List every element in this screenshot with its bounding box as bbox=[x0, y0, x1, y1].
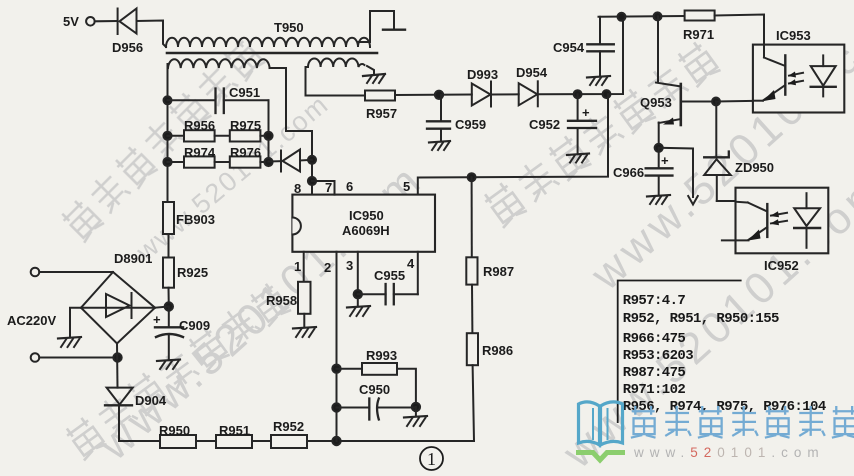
bridge rectifier D8901 bbox=[81, 272, 155, 344]
wire pin2 to R993 bbox=[337, 368, 363, 370]
parts list border bbox=[618, 281, 742, 424]
junction C954 top bbox=[618, 13, 626, 21]
junction pin3/C955 bbox=[354, 290, 362, 298]
junction R987 top bbox=[468, 173, 476, 181]
wire secondary1 right end down to rectifier diode bbox=[270, 68, 312, 195]
ground (R958) bbox=[293, 327, 316, 337]
junction R993/C950 right bbox=[412, 403, 420, 411]
junction pin2/R993 bbox=[332, 365, 340, 373]
ground (secondary2) bbox=[363, 74, 385, 83]
capacitor C959 bbox=[427, 95, 450, 142]
wire D993 to D954 bbox=[491, 93, 519, 95]
svg-text:R974: R974 bbox=[184, 145, 216, 160]
svg-text:R956, R974, R975, R976:104: R956, R974, R975, R976:104 bbox=[623, 399, 826, 415]
capacitor C951 bbox=[168, 89, 269, 114]
node AC bottom terminal bbox=[31, 353, 40, 362]
resistor R958 bbox=[298, 282, 311, 314]
svg-text:C952: C952 bbox=[529, 117, 560, 132]
capacitor C909 (electrolytic) bbox=[155, 307, 183, 360]
svg-text:R975: R975 bbox=[230, 118, 261, 133]
ground (C959) bbox=[429, 141, 450, 150]
svg-text:C955: C955 bbox=[374, 268, 405, 283]
svg-text:7: 7 bbox=[325, 180, 332, 195]
wire pin 3 bbox=[357, 252, 359, 306]
resistor R957 bbox=[365, 91, 395, 101]
wire bottom rail right bbox=[307, 440, 474, 442]
ground (C954) bbox=[587, 76, 610, 85]
wire D956 to T950 primary bbox=[137, 21, 167, 48]
wire Q953 base to IC953 emitter bbox=[682, 101, 716, 103]
capacitor C952 (electrolytic) bbox=[568, 94, 596, 154]
svg-text:5V: 5V bbox=[63, 14, 79, 29]
junction R974 left bbox=[163, 158, 171, 166]
svg-text:R952: R952 bbox=[273, 419, 304, 434]
diode D956 bbox=[118, 9, 137, 35]
junction R975 right bbox=[264, 132, 272, 140]
wire pin 2 long bbox=[336, 252, 338, 441]
junction diode anode node bbox=[308, 156, 316, 164]
wire pin5 feedback net bbox=[418, 94, 608, 195]
wire C951 right down bbox=[268, 100, 270, 162]
svg-text:R976: R976 bbox=[230, 145, 261, 160]
logo green underline bbox=[576, 453, 625, 461]
svg-text:R956: R956 bbox=[184, 118, 215, 133]
svg-text:D993: D993 bbox=[467, 67, 498, 82]
resistor R951 bbox=[216, 435, 252, 448]
svg-text:8: 8 bbox=[294, 181, 301, 196]
svg-text:A6069H: A6069H bbox=[342, 223, 390, 238]
wire bridge left to ground bbox=[70, 308, 81, 337]
svg-text:R966:475: R966:475 bbox=[623, 331, 686, 347]
svg-text:FB903: FB903 bbox=[176, 212, 215, 227]
logo text jiadian weixiu ziliao wang (blue script) bbox=[631, 406, 854, 438]
svg-text:R971:102: R971:102 bbox=[623, 382, 686, 398]
wire bottom rail left bbox=[119, 440, 160, 442]
wire R925 to C909 node bbox=[168, 288, 170, 307]
junction pin5 feedback node bbox=[603, 90, 611, 98]
arrow off-page down bbox=[688, 196, 698, 205]
node AC top terminal bbox=[31, 268, 40, 277]
ground (C952) bbox=[567, 154, 589, 163]
capacitor C966 (electrolytic) bbox=[646, 148, 673, 196]
op-amp IC950 body bbox=[292, 195, 435, 252]
ground (C950 right) bbox=[404, 407, 427, 426]
logo book icon bbox=[579, 402, 623, 445]
wire top bus bbox=[599, 15, 685, 18]
svg-text:R950: R950 bbox=[159, 423, 190, 438]
svg-text:R987: R987 bbox=[483, 264, 514, 279]
ground (AC input) bbox=[58, 337, 81, 347]
wire D954 to riser bbox=[538, 17, 623, 94]
transformer T950 secondary winding 2 bbox=[308, 59, 364, 68]
svg-text:AC220V: AC220V bbox=[7, 313, 56, 328]
svg-text:R971: R971 bbox=[683, 27, 714, 42]
ground (C966) bbox=[647, 195, 670, 204]
svg-text:2: 2 bbox=[324, 260, 331, 275]
junction Q953 base / ZD950 bbox=[712, 98, 720, 106]
svg-text:IC950: IC950 bbox=[349, 208, 384, 223]
svg-text:C951: C951 bbox=[229, 85, 260, 100]
wire R951-R952 bbox=[252, 440, 271, 442]
svg-text:3: 3 bbox=[346, 258, 353, 273]
junction R956 left bbox=[163, 132, 171, 140]
junction C952 node bbox=[574, 90, 582, 98]
wire pin 7 link bbox=[312, 181, 335, 195]
diode D993 bbox=[472, 82, 491, 107]
svg-text:5: 5 bbox=[403, 179, 410, 194]
resistor R993 bbox=[362, 363, 397, 375]
junction pin2/C950 bbox=[332, 403, 340, 411]
transformer T950 core bbox=[167, 52, 377, 55]
svg-text:R925: R925 bbox=[177, 265, 208, 280]
resistor R974 bbox=[168, 156, 215, 167]
wire ZD950 to IC952 bbox=[717, 200, 736, 202]
svg-text:+: + bbox=[582, 105, 590, 120]
resistor R956 bbox=[168, 130, 215, 141]
wire bridge right to C909 node bbox=[155, 307, 169, 308]
svg-text:IC952: IC952 bbox=[764, 258, 799, 273]
resistor R925 bbox=[163, 258, 174, 288]
transistor Q953 bbox=[656, 16, 681, 147]
wire R987 to R986 bbox=[471, 285, 473, 334]
svg-text:R957:4.7: R957:4.7 bbox=[623, 293, 686, 309]
junction Q953 emitter / C966 bbox=[655, 144, 663, 152]
junction C959 node bbox=[435, 91, 443, 99]
svg-text:R952, R951, R950:155: R952, R951, R950:155 bbox=[623, 311, 779, 327]
wire R987 chain top bbox=[471, 177, 473, 257]
capacitor C955 bbox=[358, 284, 418, 304]
svg-text:C966: C966 bbox=[613, 165, 644, 180]
wire 5V to D956 bbox=[95, 20, 117, 22]
optocoupler IC952 bbox=[722, 188, 828, 254]
svg-text:D904: D904 bbox=[135, 393, 167, 408]
wire AC bottom to bridge bottom bbox=[39, 357, 117, 359]
svg-text:R958: R958 bbox=[266, 293, 297, 308]
svg-text:IC953: IC953 bbox=[776, 28, 811, 43]
svg-text:R951: R951 bbox=[219, 423, 250, 438]
svg-text:C909: C909 bbox=[179, 318, 210, 333]
wire bridge bottom down to D904 bbox=[116, 344, 119, 388]
node circled 1 bbox=[420, 447, 443, 470]
transformer T950 secondary winding 1 bbox=[168, 59, 270, 68]
svg-text:+: + bbox=[661, 153, 669, 168]
resistor R986 bbox=[467, 333, 478, 365]
node 5V terminal bbox=[86, 17, 95, 26]
junction C909 node bbox=[165, 302, 173, 310]
resistor R950 bbox=[160, 435, 196, 448]
capacitor C954 bbox=[587, 17, 614, 76]
junction Q953 collector top bbox=[654, 12, 662, 20]
svg-text:www.520101.com: www.520101.com bbox=[633, 445, 825, 460]
transformer T950 primary winding bbox=[166, 38, 370, 47]
svg-text:D954: D954 bbox=[516, 65, 548, 80]
wire R971 to IC953 bbox=[715, 15, 764, 45]
wire IC953 emitter out bbox=[716, 100, 753, 103]
wire C966 node to off-page arrow bbox=[659, 148, 693, 197]
ground (C909) bbox=[157, 360, 180, 370]
diode D904 bbox=[105, 388, 133, 441]
svg-text:R953:6203: R953:6203 bbox=[623, 348, 693, 364]
svg-text:ZD950: ZD950 bbox=[735, 160, 774, 175]
wire pin 4 bbox=[417, 252, 419, 294]
wire R950-R951 bbox=[196, 440, 216, 442]
svg-text:C950: C950 bbox=[359, 382, 390, 397]
junction pin8/pin7 node bbox=[308, 177, 316, 185]
svg-text:D956: D956 bbox=[112, 40, 143, 55]
diode D950 (vcc rectifier) bbox=[269, 150, 313, 172]
wire R957 to D993 bbox=[395, 94, 472, 97]
junction bottom rail / pin2 bbox=[332, 437, 340, 445]
wire left rail bbox=[167, 64, 169, 202]
resistor R971 bbox=[685, 11, 715, 21]
optocoupler IC953 bbox=[753, 45, 844, 113]
wire secondary2 right end to ground bbox=[367, 66, 374, 74]
svg-text:D8901: D8901 bbox=[114, 251, 152, 266]
wire pin 1 bbox=[303, 252, 305, 282]
wire R993 right down bbox=[397, 369, 416, 407]
zener diode ZD950 bbox=[704, 102, 731, 202]
diode D954 bbox=[519, 81, 538, 106]
wire FB903 to R925 bbox=[168, 234, 170, 258]
svg-text:R987:475: R987:475 bbox=[623, 365, 686, 381]
svg-text:1: 1 bbox=[294, 259, 301, 274]
wire secondary2 left end to R957 bbox=[306, 67, 366, 96]
wire primary hot end to chopper bar bbox=[358, 11, 394, 42]
capacitor C950 bbox=[337, 399, 416, 420]
junction bridge bottom bbox=[113, 353, 121, 361]
chopper terminal bar bbox=[383, 29, 405, 31]
inductor FB903 bbox=[163, 202, 174, 234]
svg-text:1: 1 bbox=[427, 449, 436, 469]
svg-text:C959: C959 bbox=[455, 117, 486, 132]
svg-text:R957: R957 bbox=[366, 106, 397, 121]
svg-text:T950: T950 bbox=[274, 20, 304, 35]
ground (pin3) bbox=[347, 306, 370, 316]
resistor R952 bbox=[271, 435, 307, 448]
svg-text:6: 6 bbox=[346, 179, 353, 194]
svg-text:R993: R993 bbox=[366, 348, 397, 363]
resistor R975 bbox=[215, 130, 269, 141]
wire R958 to ground bbox=[303, 314, 305, 327]
svg-text:R986: R986 bbox=[482, 343, 513, 358]
svg-text:C954: C954 bbox=[553, 40, 585, 55]
resistor R987 bbox=[466, 257, 477, 284]
wire R986 to bottom rail bbox=[473, 365, 474, 441]
svg-text:+: + bbox=[153, 312, 161, 327]
svg-text:Q953: Q953 bbox=[640, 95, 672, 110]
junction R976 right bbox=[264, 158, 272, 166]
wire AC top to bridge bbox=[39, 271, 113, 273]
junction C951 left bbox=[164, 96, 172, 104]
resistor R976 bbox=[215, 156, 269, 167]
svg-text:4: 4 bbox=[407, 256, 415, 271]
